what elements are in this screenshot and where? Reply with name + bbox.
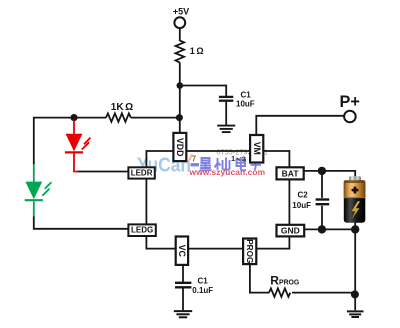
LED red D1 (65, 121, 91, 172)
svg-text:LEDR: LEDR (131, 168, 153, 177)
wire GND to battery bottom (304, 228, 355, 230)
junction RPROG/ground (351, 290, 359, 298)
watermark dash (191, 163, 200, 166)
wire node A to C1 top (180, 86, 226, 97)
+5V terminal (174, 17, 185, 28)
LED green D2 (25, 164, 52, 217)
昱 (200, 158, 212, 170)
svg-text:1Ω: 1Ω (190, 46, 204, 56)
junction node C (LED tap) (70, 114, 77, 121)
svg-text:VM: VM (252, 142, 262, 155)
wire VC to C1b (182, 265, 184, 282)
ground (C1b) (174, 311, 192, 317)
pin box PROG (243, 239, 256, 265)
wire battery bottom to ground (354, 222, 356, 310)
svg-text:P+: P+ (340, 93, 360, 111)
wire R1 to node A (179, 62, 181, 85)
svg-text:BAT: BAT (282, 168, 300, 178)
capacitor C1 0.1uF (175, 283, 191, 288)
battery BT1 (344, 176, 366, 223)
wire VM to P+ (256, 116, 344, 135)
子 (251, 158, 262, 170)
wire 1K ohm right lead (131, 117, 180, 119)
watermark logo accent slash (189, 154, 192, 161)
junction node A (177, 82, 184, 89)
P+ terminal (344, 111, 356, 123)
resistor RPROG (269, 288, 290, 296)
svg-text:LEDG: LEDG (131, 226, 153, 235)
capacitor C1 10uF (219, 97, 233, 101)
watermark chinese characters 昱灿电子 (200, 157, 262, 170)
pin box LEDR (128, 167, 154, 178)
svg-text:www.szyucan.com: www.szyucan.com (189, 167, 266, 177)
pin number tick (237, 158, 240, 161)
wire BAT to battery (304, 171, 355, 177)
电 (237, 157, 247, 170)
wire C1 bottom to ground (225, 102, 227, 125)
svg-text:C1: C1 (241, 90, 252, 99)
junction battery bottom (351, 225, 359, 233)
resistor R2 1K ohm (106, 113, 131, 121)
junction BAT/C2 (318, 167, 326, 175)
svg-text:C1: C1 (198, 277, 209, 286)
svg-text:GND: GND (281, 226, 300, 236)
svg-text:0.1uF: 0.1uF (192, 286, 213, 295)
wire C2 bottom lead (321, 206, 323, 230)
svg-text:+5V: +5V (173, 7, 189, 17)
wire node A to node B to VDD (179, 86, 181, 133)
svg-text:C2: C2 (298, 191, 309, 200)
wire +5V stem (179, 28, 181, 41)
pin box LEDG (128, 224, 155, 236)
svg-text:VC: VC (177, 245, 187, 258)
wire C2 top lead (321, 171, 323, 198)
wire 1K ohm left lead (34, 118, 106, 165)
svg-text:10uF: 10uF (292, 201, 311, 210)
junction node B (VDD feed) (176, 114, 183, 121)
svg-text:VDD: VDD (175, 138, 185, 157)
wire C1b to ground (182, 288, 184, 310)
wire green LED to LEDG (34, 216, 129, 229)
wire red LED to LEDR (78, 171, 129, 173)
svg-text:1: 1 (231, 154, 235, 163)
resistor R1 1ohm (176, 41, 185, 63)
svg-text:3: 3 (242, 155, 246, 164)
pin box BAT (277, 167, 304, 179)
ground (battery/RPROG) (347, 311, 364, 317)
junction GND/C2 (318, 225, 326, 233)
pin box VM (250, 135, 263, 163)
ground (C1) (217, 126, 235, 133)
灿 (215, 158, 230, 171)
svg-text:PROG: PROG (245, 239, 254, 263)
svg-text:10uF: 10uF (236, 100, 255, 109)
wire RPROG to ground node (292, 292, 355, 294)
IC ring outline (146, 151, 289, 249)
svg-text:1KΩ: 1KΩ (111, 102, 133, 113)
capacitor C2 10uF (316, 200, 330, 205)
pin box VC (176, 237, 188, 265)
wire PROG to RPROG (250, 264, 269, 293)
svg-text:7: 7 (192, 154, 197, 163)
pin box VDD (173, 133, 186, 161)
pin box GND (277, 225, 305, 237)
